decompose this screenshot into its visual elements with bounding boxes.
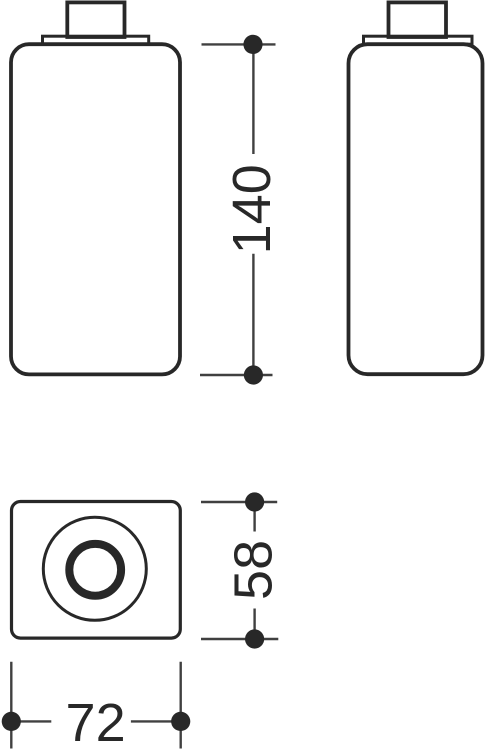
dim 72 right dot [171, 712, 190, 731]
dim 72 line left segment [11, 720, 51, 722]
front view cap [67, 2, 124, 37]
dim 140 top dot [243, 35, 262, 54]
dim 58 bottom extension line [201, 638, 278, 640]
dim 140 bottom extension line [200, 374, 273, 376]
dim 140 line lower segment [252, 254, 254, 375]
side view cap [389, 2, 447, 37]
side view collar [364, 36, 473, 44]
dim 140 line upper segment [252, 44, 254, 154]
svg-text:140: 140 [222, 164, 282, 254]
dim 58 top dot [245, 492, 264, 511]
front view body [11, 44, 180, 374]
bottom view inner ring [69, 544, 121, 596]
dim 72 right extension line [179, 662, 181, 749]
svg-text:72: 72 [66, 693, 126, 750]
dim 72 line right segment [131, 720, 181, 722]
dim 72 left extension line [10, 662, 12, 749]
front view collar [43, 36, 149, 44]
dim 58 bottom dot [245, 629, 264, 648]
dim 72 left dot [2, 712, 21, 731]
dim 140 top extension line [202, 43, 276, 45]
svg-text:58: 58 [223, 540, 283, 600]
bottom view square [12, 502, 181, 639]
dim 58 line lower segment [253, 609, 255, 640]
bottom view outer circle [43, 517, 146, 620]
dim 58 line upper segment [253, 502, 255, 532]
dim 58 top extension line [201, 501, 277, 503]
side view body [349, 44, 483, 374]
dim 140 bottom dot [244, 365, 263, 384]
